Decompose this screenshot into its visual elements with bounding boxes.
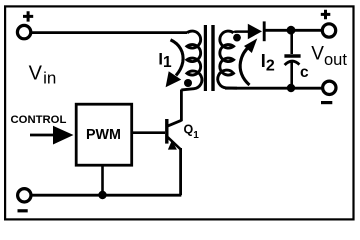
wire top rail down to plate: [290, 30, 293, 54]
current arrow I1: [171, 40, 184, 76]
capacitor C: [284, 30, 300, 88]
svg-text:I2: I2: [261, 51, 275, 74]
input positive terminal circle: [17, 25, 30, 38]
wire: output bottom rail: [225, 87, 323, 90]
secondary polarity dot: [233, 34, 241, 42]
terminal + (input positive): [23, 11, 33, 21]
current arrow I2: [240, 47, 249, 86]
diode D1: [248, 21, 264, 41]
emitter diagonal: [167, 136, 181, 149]
base bar: [165, 119, 168, 144]
primary polarity dot: [184, 79, 192, 87]
wire: bottom rail from - terminal to emitter: [32, 194, 182, 197]
wire: emitter down to ground rail: [179, 148, 182, 195]
svg-text:PWM: PWM: [86, 127, 121, 143]
core line right: [211, 25, 214, 91]
svg-text:c: c: [300, 64, 309, 81]
input negative terminal circle: [18, 189, 31, 202]
svg-text:Vin: Vin: [29, 62, 57, 87]
PWM block U1: [76, 104, 132, 165]
wire: PWM output to transistor base: [132, 131, 165, 134]
cathode bar: [263, 21, 266, 41]
I1 arrowhead: [166, 71, 182, 87]
wire: PWM bottom to ground rail: [101, 165, 104, 195]
transformer T1: [181, 25, 241, 91]
svg-text:CONTROL: CONTROL: [11, 114, 67, 126]
secondary winding: [218, 31, 237, 88]
collector diagonal: [167, 120, 181, 126]
wire: input + to transformer primary top: [32, 31, 188, 34]
emitter arrowhead: [168, 140, 177, 149]
junction dot (cap bottom): [287, 84, 295, 92]
wire: diode to output +: [264, 29, 323, 32]
wire plate down to rail: [290, 62, 293, 88]
junction dot (cap top): [287, 26, 296, 35]
output positive terminal circle: [322, 24, 335, 37]
I2 arrowhead: [244, 38, 257, 53]
terminal - (output negative): [321, 101, 332, 104]
transistor Q1 (NPN): [167, 119, 182, 150]
primary winding: [181, 31, 202, 90]
control input block arrow: [30, 126, 74, 145]
junction dot (PWM ground): [98, 191, 106, 199]
top plate: [284, 54, 300, 57]
output negative terminal circle: [323, 81, 336, 94]
svg-text:Q1: Q1: [184, 123, 200, 142]
bottom curved plate: [285, 61, 300, 65]
svg-text:I1: I1: [158, 50, 172, 71]
wire: secondary top to diode: [234, 32, 249, 33]
svg-text:Vout: Vout: [311, 44, 347, 69]
wire: collector up to primary winding: [180, 90, 183, 122]
core line left: [204, 25, 207, 91]
terminal + (output positive): [321, 10, 331, 20]
terminal - (input negative): [18, 209, 28, 212]
